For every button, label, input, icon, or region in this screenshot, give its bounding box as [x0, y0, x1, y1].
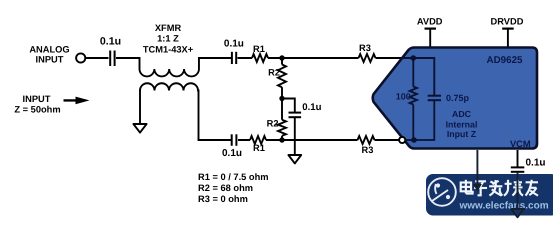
wire C4 down through rail	[294, 117, 296, 154]
wire R1 to R3 top	[268, 57, 359, 59]
ADC AD9625 body	[373, 48, 537, 149]
watermark logo circle	[428, 178, 456, 206]
svg-text:0.1u: 0.1u	[526, 157, 546, 168]
svg-text:0.1u: 0.1u	[302, 102, 321, 113]
wire XFMR to C2	[198, 57, 231, 59]
ground stub below ADC	[473, 150, 482, 192]
resistor R2 (lower, vertical)	[267, 99, 286, 141]
resistor R1 (top)	[252, 44, 268, 62]
wire C2 to R1 top	[238, 57, 253, 59]
wire bubble to internal node	[405, 139, 414, 141]
svg-text:R3: R3	[362, 145, 374, 155]
svg-text:0.75p: 0.75p	[446, 93, 470, 103]
input terminal circle	[76, 53, 85, 62]
svg-text:R1: R1	[253, 143, 265, 153]
svg-text:DRVDD: DRVDD	[491, 17, 524, 27]
wire secondary left lead down	[139, 91, 142, 124]
internal top rail	[401, 58, 434, 95]
inverting input bubble	[399, 137, 405, 143]
resistor R1 (bottom)	[250, 136, 266, 153]
watermark box	[426, 174, 553, 216]
svg-text:AVDD: AVDD	[417, 17, 443, 27]
svg-text:R3 = 0 ohm: R3 = 0 ohm	[198, 194, 248, 204]
watermark chinese glyphs	[461, 180, 538, 196]
node junction top (R2 upper)	[279, 55, 284, 60]
svg-text:R2: R2	[268, 67, 280, 77]
svg-text:INPUT: INPUT	[23, 94, 51, 104]
svg-text:AD9625: AD9625	[487, 55, 523, 66]
svg-text:XFMR: XFMR	[155, 23, 182, 33]
capacitor C4 0.1u (middle)	[289, 102, 322, 117]
DRVDD power label	[491, 17, 524, 49]
子	[475, 180, 486, 182]
svg-text:Internal: Internal	[446, 119, 478, 129]
resistor R3 (top)	[359, 43, 376, 62]
svg-text:VCM: VCM	[510, 139, 531, 149]
svg-text:Z = 50ohm: Z = 50ohm	[14, 105, 60, 115]
wire terminal to C1	[85, 57, 108, 59]
wire C1 to XFMR	[116, 57, 140, 59]
svg-text:0.1u: 0.1u	[222, 148, 242, 159]
internal top node	[411, 55, 417, 61]
capacitor C2 0.1u (top)	[224, 39, 244, 64]
resistor R3 (bottom)	[358, 136, 375, 155]
svg-text:R3: R3	[359, 43, 371, 53]
notes text block	[198, 172, 269, 204]
node ANALOG INPUT label	[29, 45, 69, 65]
wire R3 to inverting input bubble	[375, 139, 400, 141]
AVDD power label	[417, 17, 443, 49]
wire R3 to ADC top input	[376, 57, 414, 59]
svg-text:100: 100	[396, 92, 411, 102]
internal bottom node	[411, 137, 417, 143]
node INPUT Z=50ohm label	[14, 94, 60, 115]
svg-text:R2 = 68 ohm: R2 = 68 ohm	[198, 183, 253, 193]
友	[526, 181, 538, 183]
capacitor C3 0.1u (bottom)	[222, 134, 242, 159]
svg-text:TCM1-43X+: TCM1-43X+	[143, 44, 194, 54]
input impedance arrow	[64, 97, 90, 105]
VCM decoupling line	[517, 150, 519, 167]
transformer T1 primary winding	[140, 57, 199, 76]
发	[489, 185, 502, 187]
wire C3 to R1 bottom	[238, 139, 250, 141]
resistor R2 (upper, vertical)	[268, 58, 286, 99]
node junction bottom (R2 lower)	[279, 137, 284, 142]
svg-text:Input Z: Input Z	[447, 129, 477, 139]
internal bottom rail	[414, 101, 434, 140]
svg-text:R2: R2	[267, 119, 279, 129]
电	[461, 183, 471, 192]
transformer T1 secondary winding	[140, 83, 198, 90]
wire VCM cap to ground	[517, 172, 519, 209]
ADC internal impedance caption	[446, 109, 478, 139]
transformer XFMR label	[143, 23, 194, 55]
svg-text:0.1u: 0.1u	[100, 35, 121, 47]
svg-text:INPUT: INPUT	[36, 55, 64, 65]
wire middle node to C4	[282, 99, 295, 113]
烧	[507, 180, 509, 190]
ground (middle cap)	[288, 155, 301, 163]
ground (transformer)	[133, 124, 146, 133]
internal capacitor 0.75p	[428, 93, 470, 103]
svg-text:R1: R1	[253, 44, 265, 54]
svg-text:ADC: ADC	[452, 109, 472, 119]
ground (VCM)	[511, 209, 524, 217]
svg-text:R1 = 0 / 7.5 ohm: R1 = 0 / 7.5 ohm	[198, 172, 269, 182]
svg-text:1:1 Z: 1:1 Z	[157, 34, 179, 44]
wire secondary right lead down to bottom rail	[197, 91, 231, 141]
node junction middle	[279, 96, 284, 101]
svg-text:0.1u: 0.1u	[224, 39, 244, 50]
internal resistor 100 ohm	[396, 58, 417, 140]
capacitor C 0.1u (input)	[100, 35, 121, 66]
capacitor 0.1u (VCM)	[511, 157, 546, 172]
wire R1 to node, across to R3 bottom	[266, 139, 358, 141]
svg-text:www.elecfans.com: www.elecfans.com	[459, 200, 549, 211]
svg-text:ANALOG: ANALOG	[29, 45, 69, 55]
